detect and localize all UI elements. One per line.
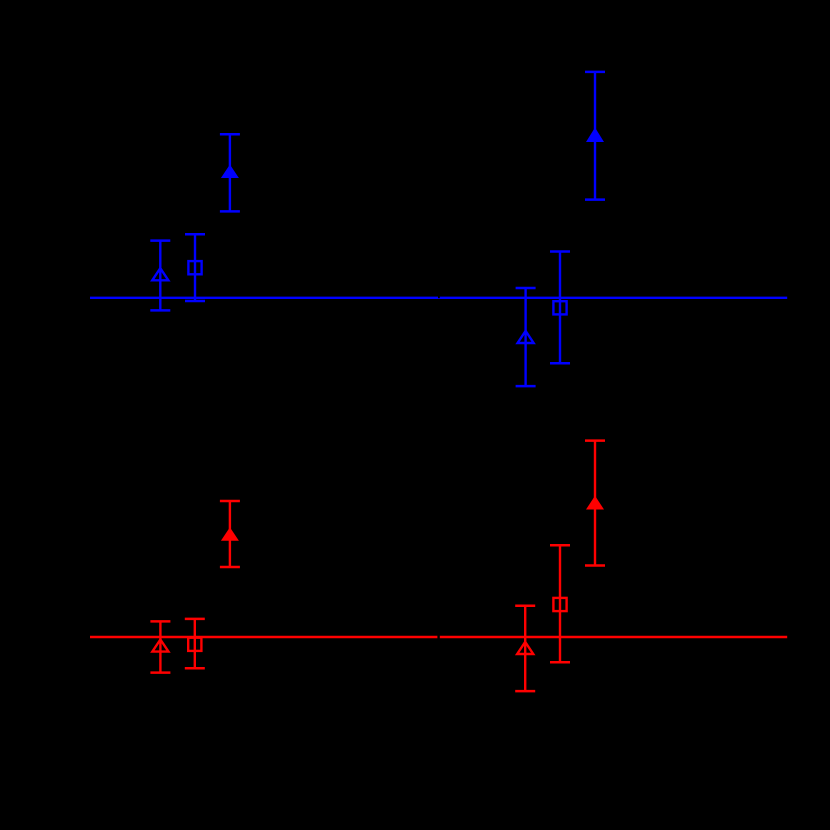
- red errorbar 10 (open triangle): [515, 606, 535, 691]
- blue errorbar 1 (open triangle): [150, 241, 170, 311]
- notch on blue line: [438, 296, 440, 298]
- blue errorbar 5 (open square): [550, 252, 570, 364]
- blue errorbar 3 (filled triangle): [220, 134, 240, 211]
- red errorbar 9 (filled triangle): [220, 501, 240, 567]
- red errorbar 11 (open square): [550, 545, 570, 662]
- blue errorbar 6 (filled triangle): [585, 72, 605, 200]
- notch on red line: [437, 635, 439, 639]
- blue reference hline: [90, 297, 787, 299]
- blue errorbar 2 (open square): [185, 234, 205, 301]
- red errorbar 7 (open triangle): [150, 621, 170, 672]
- blue errorbar 4 (open triangle): [516, 288, 536, 386]
- red errorbar 12 (filled triangle): [585, 441, 605, 566]
- red reference hline: [90, 636, 787, 639]
- red errorbar 8 (open square): [185, 619, 205, 668]
